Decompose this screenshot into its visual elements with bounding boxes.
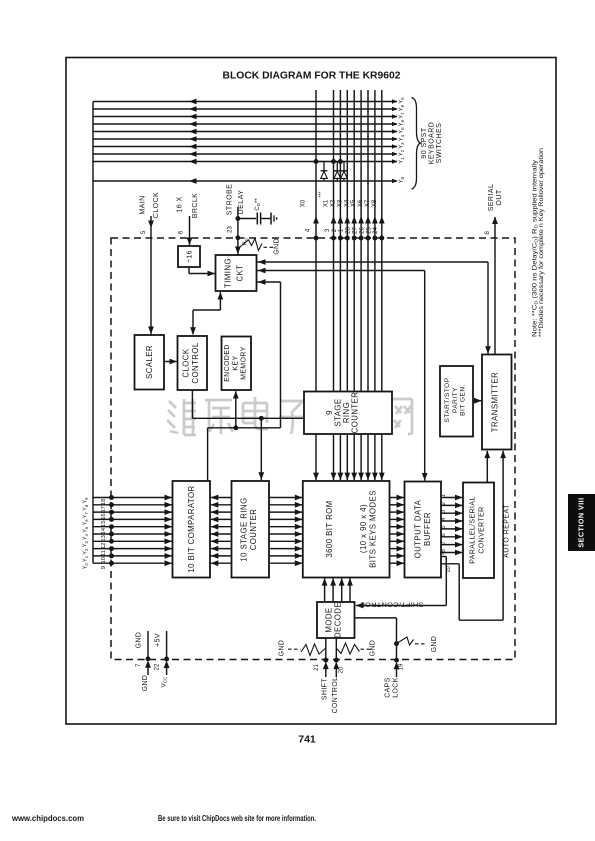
- wire X6 column (pin 26): [367, 90, 369, 392]
- wire ring counter to comparator row 7: [211, 548, 232, 550]
- junction boundary row 2: [109, 510, 114, 515]
- svg-text:www.chipdocs.com: www.chipdocs.com: [11, 814, 84, 823]
- svg-text:2: 2: [441, 502, 447, 505]
- block: OUTPUT DATA BUFFER: [405, 482, 442, 578]
- svg-text:8: 8: [484, 231, 491, 235]
- svg-text:CONVERTER: CONVERTER: [479, 506, 486, 553]
- svg-text:28: 28: [346, 227, 352, 234]
- svg-text:BIT GEN.: BIT GEN.: [460, 384, 467, 416]
- wire comparator feedback (to EKM and timing): [207, 428, 209, 481]
- wire Y1 comparator input (pin 10): [93, 555, 172, 557]
- wire buffer bit 2 to converter: [441, 504, 463, 506]
- svg-text:90 SPST: 90 SPST: [421, 127, 428, 158]
- svg-text:GND: GND: [142, 675, 149, 692]
- junction boundary row 3: [109, 517, 114, 522]
- svg-text:Y0: Y0: [399, 176, 406, 183]
- svg-text:Y3: Y3: [399, 142, 406, 149]
- svg-text:7: 7: [441, 541, 447, 544]
- junction: branch up to encoded key memory: [233, 425, 238, 430]
- junction dot X1/Y1: [331, 159, 336, 164]
- wire Y9 comparator input (pin 18): [93, 497, 172, 499]
- wire ring counter to ROM row 9: [269, 562, 302, 564]
- svg-text:OUTPUT DATA: OUTPUT DATA: [414, 499, 423, 558]
- wire X8 column (pin 24): [381, 90, 383, 392]
- svg-text:CKT: CKT: [236, 265, 245, 282]
- wire shift input (pin 21): [325, 638, 327, 660]
- wire Y0 row: [93, 180, 397, 182]
- svg-text:SHIFT: SHIFT: [321, 678, 328, 700]
- pin arrow X7: [372, 216, 378, 224]
- wire ring counter to ROM row 7: [269, 548, 302, 550]
- block: 9 STAGE RING COUNTER: [304, 392, 392, 435]
- svg-text:741: 741: [298, 734, 316, 746]
- wire timing input A (from transmitter clock line): [257, 261, 489, 263]
- svg-text:X0: X0: [300, 199, 306, 207]
- wire ROM to output buffer row 5: [390, 533, 405, 535]
- ground (strobe cap): [270, 213, 272, 225]
- wire ROM to output buffer row 7: [390, 548, 405, 550]
- wire Y1 row: [93, 161, 397, 163]
- junction boundary row 0: [109, 495, 114, 500]
- wire ring counter to ROM row 3: [269, 518, 302, 520]
- svg-text:AUTO REPEAT: AUTO REPEAT: [504, 504, 511, 558]
- svg-text:22: 22: [154, 663, 160, 670]
- svg-text:10 BIT COMPARATOR: 10 BIT COMPARATOR: [187, 485, 196, 572]
- svg-text:10: 10: [446, 566, 452, 573]
- wire scaler to clock control: [164, 361, 177, 363]
- svg-text:Y6: Y6: [83, 519, 89, 526]
- wire div16 to timing: [188, 267, 190, 274]
- wire ROM to output buffer row 0: [390, 497, 405, 499]
- junction X3/boundary: [345, 236, 350, 241]
- wire ring counter out 5 to ROM: [360, 434, 362, 480]
- wire ring counter to ROM row 0: [269, 497, 302, 499]
- svg-text:Y2: Y2: [399, 149, 406, 156]
- svg-text:CONTROL: CONTROL: [332, 677, 339, 714]
- svg-text:BLOCK DIAGRAM FOR THE KR9602: BLOCK DIAGRAM FOR THE KR9602: [223, 70, 401, 81]
- pin arrow X5: [358, 216, 364, 224]
- wire ring counter to comparator row 5: [211, 533, 232, 535]
- pin arrow X1: [331, 216, 337, 224]
- wire Y5 comparator input (pin 14): [93, 526, 172, 528]
- junction X8/boundary: [379, 236, 384, 241]
- junction X0/boundary: [314, 236, 319, 241]
- wire ROM to output buffer row 3: [390, 518, 405, 520]
- svg-text:16 X: 16 X: [176, 196, 183, 212]
- svg-text:***Diodes necessary for comple: ***Diodes necessary for complete n Key R…: [538, 148, 545, 337]
- svg-text:Y8: Y8: [83, 504, 89, 511]
- svg-text:Y1: Y1: [399, 157, 406, 164]
- pin arrow X4: [351, 216, 357, 224]
- wire serial out (pin 8): [494, 217, 496, 355]
- svg-text:CD**: CD**: [255, 198, 261, 211]
- svg-text:KEYBOARD: KEYBOARD: [429, 122, 436, 165]
- svg-text:25: 25: [366, 227, 372, 234]
- block U-TIMING: TIMING CKT: [216, 255, 257, 291]
- svg-text:Y4: Y4: [83, 533, 89, 540]
- wire Y2 comparator input (pin 11): [93, 548, 172, 550]
- wire ring counter out 8 to ROM: [381, 434, 383, 480]
- svg-text:PARITY: PARITY: [452, 387, 459, 413]
- wire ring counter out 0 to ROM: [315, 434, 317, 480]
- wire buffer bit 1 to converter: [441, 497, 463, 499]
- junction boundary row 8: [109, 553, 114, 558]
- diode CR2 (X1 column): [334, 161, 337, 163]
- wire X3 column (pin 1): [346, 90, 348, 392]
- svg-text:Y5: Y5: [83, 526, 89, 533]
- junction boundary row 6: [109, 539, 114, 544]
- junction X4/boundary: [352, 236, 357, 241]
- svg-text:Y3: Y3: [83, 541, 89, 548]
- junction X5/boundary: [359, 236, 364, 241]
- svg-text:GND: GND: [431, 636, 438, 653]
- wire mode decode to ROM: [349, 578, 351, 602]
- svg-text:KEY: KEY: [232, 355, 239, 370]
- wire buffer bit 7 to converter: [441, 544, 463, 546]
- svg-text:CAPS: CAPS: [385, 677, 392, 698]
- wire ring counter to ROM row 6: [269, 540, 302, 542]
- svg-text:COUNTER: COUNTER: [351, 392, 360, 434]
- svg-text:TIMING: TIMING: [224, 258, 233, 288]
- svg-text:X4: X4: [344, 199, 350, 207]
- wire Y7 comparator input (pin 16): [93, 511, 172, 513]
- svg-text:÷16: ÷16: [187, 250, 194, 263]
- wire ROM to output buffer row 1: [390, 504, 405, 506]
- svg-text:SHIFT/CONTROL: SHIFT/CONTROL: [360, 601, 423, 608]
- wire ring counter to ROM row 5: [269, 533, 302, 535]
- wire Y4 comparator input (pin 13): [93, 533, 172, 535]
- svg-text:X1: X1: [323, 199, 329, 207]
- junction dot X2/Y1: [338, 159, 343, 164]
- wire ring counter to comparator row 2: [211, 511, 232, 513]
- wire ring counter to comparator row 1: [211, 504, 232, 506]
- svg-text:23: 23: [228, 226, 234, 233]
- svg-text:(10 x 90 x 4): (10 x 90 x 4): [359, 504, 368, 553]
- svg-text:CLOCK: CLOCK: [181, 348, 190, 377]
- junction dot X0/Y1: [314, 159, 319, 164]
- svg-text:20: 20: [339, 666, 345, 673]
- svg-text:CONTROL: CONTROL: [191, 342, 200, 383]
- svg-text:RD: RD: [243, 238, 249, 245]
- wire X1 column (pin 3): [333, 90, 335, 392]
- wire control input (pin 20): [335, 638, 337, 660]
- svg-text:+5V: +5V: [154, 633, 161, 647]
- svg-text:Y4: Y4: [399, 134, 406, 141]
- wire buffer bit 8 to converter: [441, 552, 463, 554]
- wire ring counter to comparator row 8: [211, 555, 232, 557]
- wire ring counter to ROM row 4: [269, 526, 302, 528]
- wire converter to transmitter: [486, 451, 488, 483]
- wire ring counter out 3 to ROM: [346, 434, 348, 480]
- wire clock control to 9-stage ring counter: [191, 390, 193, 418]
- wire Y3 row: [93, 146, 397, 148]
- diode CR1 (n-key rollover, X0 column): [316, 161, 324, 163]
- svg-text:DELAY: DELAY: [238, 190, 245, 215]
- wire strobe: [237, 207, 239, 255]
- svg-text:X5: X5: [351, 199, 357, 207]
- svg-text:Y8: Y8: [399, 104, 406, 111]
- block: SCALER: [135, 335, 165, 390]
- wire ROM to output buffer row 4: [390, 526, 405, 528]
- svg-text:BRCLK: BRCLK: [192, 193, 199, 219]
- svg-text:X8: X8: [372, 199, 378, 207]
- capacitor CD (strobe delay): [238, 218, 256, 220]
- block: 10 STAGE RING COUNTER: [232, 481, 270, 578]
- svg-text:Y7: Y7: [399, 112, 406, 119]
- wire timing input B (to output data buffer): [257, 270, 425, 272]
- svg-text:SECTION VIII: SECTION VIII: [577, 497, 586, 547]
- wire X2 column (pin 2): [339, 90, 341, 392]
- wire brclk: [189, 216, 191, 246]
- wire ring counter to comparator row 6: [211, 540, 232, 542]
- junction boundary row 1: [109, 502, 114, 507]
- svg-text:1: 1: [441, 494, 447, 497]
- wire ring counter to comparator row 4: [211, 526, 232, 528]
- wire ring counter to comparator row 0: [211, 497, 232, 499]
- svg-text:MEMORY: MEMORY: [241, 346, 248, 380]
- block: divide-by-16: [178, 246, 200, 267]
- svg-text:9: 9: [101, 566, 107, 569]
- wire ring counter out 4 to ROM: [353, 434, 355, 480]
- junction strobe/cap: [235, 216, 240, 221]
- svg-text:X7: X7: [365, 199, 371, 207]
- junction boundary row 5: [109, 532, 114, 537]
- svg-text:GND: GND: [136, 632, 143, 649]
- svg-text:START/STOP: START/STOP: [444, 377, 451, 422]
- svg-text:3600 BIT ROM: 3600 BIT ROM: [325, 500, 334, 557]
- svg-text:26: 26: [359, 227, 365, 234]
- svg-text:CLOCK: CLOCK: [153, 192, 160, 218]
- wire ring counter out 6 to ROM: [367, 434, 369, 480]
- junction strobe/boundary: [235, 235, 240, 240]
- svg-text:BUFFER: BUFFER: [423, 512, 432, 546]
- wire ROM to output buffer row 2: [390, 511, 405, 513]
- svg-text:24: 24: [373, 227, 379, 234]
- svg-text:GND: GND: [278, 640, 285, 657]
- wire Y0 comparator input (pin 9): [93, 562, 172, 564]
- svg-text:ENCODED: ENCODED: [224, 344, 231, 382]
- wire X4 column (pin 28): [353, 90, 355, 392]
- wire buffer bit 5 to converter: [441, 528, 463, 530]
- svg-text:11: 11: [101, 550, 107, 556]
- wire timing input C (from comparator line): [280, 282, 282, 428]
- svg-text:STROBE: STROBE: [226, 184, 233, 215]
- pin arrow X2: [338, 216, 344, 224]
- wire buffer bit 4 to converter: [441, 520, 463, 522]
- wire mode decode to ROM: [332, 578, 334, 602]
- svg-text:19: 19: [399, 663, 405, 670]
- wire mode decode to ROM: [324, 578, 326, 602]
- svg-text:MAIN: MAIN: [140, 195, 147, 214]
- svg-text:X2: X2: [331, 199, 337, 207]
- block: MODE DECODE: [317, 602, 355, 638]
- svg-text:Y9: Y9: [399, 97, 406, 104]
- svg-text:SCALER: SCALER: [145, 345, 154, 379]
- node Y bus (left vertical bus line): [92, 102, 94, 564]
- section tab SECTION VIII: [568, 494, 595, 551]
- junction: branch to 10-stage ring counter: [259, 416, 264, 421]
- wire Y8 comparator input (pin 17): [93, 504, 172, 506]
- wire caps lock (pin 19): [355, 617, 397, 619]
- wire timing to clock control: [219, 292, 221, 310]
- block: PARALLEL/SERIAL CONVERTER: [463, 483, 494, 579]
- junction boundary row 9: [109, 561, 114, 566]
- svg-text:Y6: Y6: [399, 119, 406, 126]
- junction X6/boundary: [366, 236, 371, 241]
- svg-text:BITS KEYS MODES: BITS KEYS MODES: [369, 490, 378, 568]
- svg-text:Y9: Y9: [83, 497, 89, 504]
- resistor RD (internal, to GND): [239, 239, 262, 251]
- wire Y2 row: [93, 153, 397, 155]
- svg-text:Y1: Y1: [83, 555, 89, 562]
- wire ROM to output buffer row 6: [390, 540, 405, 542]
- junction X2/boundary: [338, 236, 343, 241]
- junction X7/boundary: [372, 236, 377, 241]
- wire main clock: [150, 216, 152, 335]
- switch caps lock to GND: [397, 637, 414, 645]
- svg-text:21: 21: [314, 664, 320, 671]
- wire Y9 row: [93, 101, 397, 103]
- wire ring counter to ROM row 2: [269, 511, 302, 513]
- junction X1/boundary: [331, 236, 336, 241]
- wire buffer bit 9 (shift/control): [441, 556, 446, 558]
- svg-text:Be sure to visit ChipDocs web: Be sure to visit ChipDocs web site for m…: [158, 814, 316, 823]
- wire ring counter out 1 to ROM: [333, 434, 335, 480]
- junction boundary row 7: [109, 546, 114, 551]
- block: 10 BIT COMPARATOR: [173, 481, 211, 578]
- block: CLOCK CONTROL: [178, 336, 208, 390]
- wire Y8 row: [93, 108, 397, 110]
- wire X7 column (pin 25): [374, 90, 376, 392]
- svg-text:X3: X3: [337, 199, 343, 207]
- svg-text:COUNTER: COUNTER: [249, 509, 258, 551]
- wire Y3 comparator input (pin 12): [93, 540, 172, 542]
- wire ROM to output buffer row 9: [390, 562, 405, 564]
- block: 3600 BIT ROM: [303, 481, 390, 578]
- wire ring counter out 7 to ROM: [374, 434, 376, 480]
- wire ring counter to comparator row 3: [211, 518, 232, 520]
- svg-text:TRANSMITTER: TRANSMITTER: [491, 372, 500, 432]
- svg-text:Y2: Y2: [83, 548, 89, 555]
- wire mode decode to ROM: [341, 578, 343, 602]
- diode CR3 (X2 column): [340, 161, 344, 163]
- svg-text:Y5: Y5: [399, 127, 406, 134]
- svg-text:MODE: MODE: [325, 607, 334, 632]
- svg-text:10 STAGE RING: 10 STAGE RING: [240, 497, 249, 561]
- wire buffer bit 3 to converter: [441, 512, 463, 514]
- svg-text:Y0: Y0: [83, 563, 89, 570]
- svg-text:9: 9: [440, 552, 446, 555]
- svg-text:Y7: Y7: [83, 511, 89, 518]
- brace: 90 SPST KEYBOARD SWITCHES: [412, 98, 421, 190]
- wire ring counter to ROM row 8: [269, 555, 302, 557]
- pin arrow X3: [344, 216, 350, 224]
- svg-text:14: 14: [101, 527, 107, 534]
- chip boundary (dashed): [111, 238, 515, 660]
- svg-text:OUT: OUT: [496, 189, 503, 205]
- pin arrow X6: [365, 216, 371, 224]
- wire X0 column (pin 4): [315, 90, 317, 392]
- svg-text:***: ***: [319, 190, 325, 197]
- block: ENCODED KEY MEMORY: [222, 337, 252, 391]
- block: START/STOP PARITY BIT GEN: [440, 366, 473, 437]
- pin 22 Vcc +5V: [166, 631, 168, 659]
- junction boundary row 4: [109, 524, 114, 529]
- pin 7 GND: [147, 631, 149, 659]
- svg-text:GND: GND: [273, 238, 280, 255]
- wire parity gen to transmitter: [473, 400, 481, 402]
- svg-text:27: 27: [353, 227, 359, 234]
- svg-text:GND: GND: [369, 640, 376, 657]
- block: TRANSMITTER: [482, 355, 512, 450]
- wire ROM to output buffer row 8: [390, 555, 405, 557]
- wire ring counter to comparator row 9: [211, 562, 232, 564]
- wire Y6 row: [93, 123, 397, 125]
- svg-text:DECODE: DECODE: [334, 602, 343, 638]
- svg-text:LOCK: LOCK: [393, 677, 400, 698]
- wire Y6 comparator input (pin 15): [93, 518, 172, 520]
- pin arrow X0: [313, 216, 319, 224]
- wire buffer bit 10 (auto repeat to transmitter): [441, 563, 459, 565]
- watermark (light gray CJK-style glyph approximations): [167, 397, 412, 435]
- wire ring counter out 2 to ROM: [339, 434, 341, 480]
- svg-text:SWITCHES: SWITCHES: [436, 123, 443, 164]
- svg-text:SERIAL: SERIAL: [488, 184, 495, 212]
- wire buffer bit 6 to converter: [441, 536, 463, 538]
- switch/resistor control to GND: [336, 643, 359, 654]
- wire Y4 row: [93, 138, 397, 140]
- svg-text:PARALLEL/SERIAL: PARALLEL/SERIAL: [470, 496, 477, 564]
- wire ring counter to ROM row 1: [269, 504, 302, 506]
- wire Y7 row: [93, 116, 397, 118]
- pin arrow X8: [379, 216, 385, 224]
- wire Y5 row: [93, 131, 397, 133]
- svg-text:X6: X6: [358, 199, 364, 207]
- page border frame: [66, 58, 556, 725]
- wire X5 column (pin 27): [360, 90, 362, 392]
